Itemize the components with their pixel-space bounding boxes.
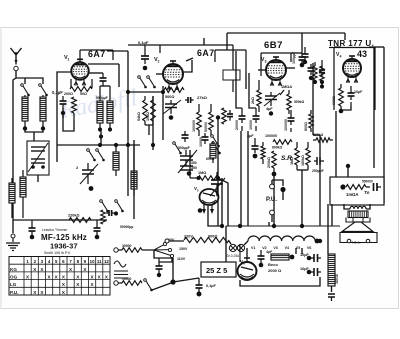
P.U. terminal bottom bbox=[270, 210, 275, 215]
svg-text:P.U.: P.U. bbox=[266, 197, 277, 203]
resistor R17 180k bbox=[306, 142, 310, 170]
junction AVC bus lower bbox=[126, 143, 130, 147]
wire antenna lead-in bbox=[15, 60, 17, 65]
tube V4 43 output bbox=[343, 56, 361, 83]
capacitor C6 0.1uF bbox=[141, 45, 149, 64]
heater labels V1-V6 bbox=[251, 246, 311, 250]
wire V1 top to bus bbox=[88, 63, 119, 65]
junction C7 bbox=[169, 115, 174, 120]
wire right bus x374 drop bbox=[373, 47, 375, 168]
resistor R15 200k bbox=[272, 151, 276, 172]
wire V3 grid bbox=[258, 69, 266, 71]
label box 6B7 bbox=[261, 53, 291, 76]
loudspeaker cone bbox=[340, 222, 377, 243]
wire top bus bbox=[227, 32, 345, 34]
wire lamp leads bbox=[229, 241, 231, 244]
svg-text:350: 350 bbox=[191, 161, 197, 165]
svg-text:Smith 106 lb P.V.: Smith 106 lb P.V. bbox=[44, 251, 71, 255]
wire bus y92 under V2 bbox=[128, 91, 164, 93]
svg-text:0,1µF: 0,1µF bbox=[138, 40, 149, 45]
svg-text:500Ω: 500Ω bbox=[165, 95, 174, 99]
junction R8 left bbox=[197, 176, 201, 180]
capacitor C15 100uuF bbox=[299, 50, 306, 64]
svg-text:l.3.a.: l.3.a. bbox=[352, 240, 361, 245]
tube V2 6A7 IF amplifier bbox=[163, 61, 183, 90]
capacitor C19 250uuF bbox=[314, 157, 324, 165]
svg-text:50Ω: 50Ω bbox=[80, 92, 87, 96]
junction Beco bbox=[290, 255, 295, 260]
resistor R13 800k bbox=[273, 140, 292, 145]
svg-text:0,1µF: 0,1µF bbox=[206, 284, 216, 288]
junction tone feed bbox=[346, 164, 350, 168]
wire x218 vertical bbox=[217, 118, 219, 227]
resistor R25 900ohm line cord bbox=[169, 237, 229, 242]
wire x328 drop bbox=[327, 204, 329, 254]
resistor R19 cathode 43 bbox=[339, 84, 344, 110]
capacitor C11 bbox=[202, 133, 209, 144]
junction C16 bbox=[269, 111, 273, 115]
line-cord terminal bbox=[165, 239, 169, 243]
junction C15 bbox=[300, 63, 305, 68]
junction x153 bus bbox=[151, 143, 155, 147]
junction S3b bbox=[114, 211, 118, 215]
wire transformer left lead bbox=[344, 204, 350, 209]
coil L3 oscillator padding bbox=[9, 178, 15, 218]
capacitor C24 bbox=[94, 220, 101, 235]
wire label arrow bbox=[186, 58, 193, 61]
capacitor C8 coupling bbox=[185, 97, 194, 103]
trimmer capacitor C34 detector bbox=[210, 172, 225, 197]
coil L9 bbox=[210, 141, 216, 163]
wire PU top bbox=[272, 180, 283, 186]
junction C21 bbox=[303, 60, 307, 64]
wire AVC bus bbox=[127, 51, 129, 196]
wire bus x153 bbox=[152, 96, 154, 150]
svg-text:3: 3 bbox=[265, 60, 267, 64]
wire arrow V3 bbox=[280, 90, 284, 95]
trimmer capacitor C4 oscillator bbox=[80, 163, 98, 184]
svg-text:KG: KG bbox=[10, 267, 17, 272]
wire IF1 top bbox=[100, 85, 110, 87]
speaker terminal 1 bbox=[347, 239, 351, 243]
wire top bus left drop bbox=[226, 33, 228, 50]
wire heater to bus bbox=[317, 240, 320, 242]
svg-text:180kΩ: 180kΩ bbox=[301, 155, 305, 166]
DC symbol bbox=[114, 271, 128, 278]
svg-text:2000 Ω: 2000 Ω bbox=[268, 268, 282, 273]
svg-text:150V: 150V bbox=[179, 247, 188, 251]
junction R15 bbox=[272, 172, 277, 177]
switch S5 bbox=[212, 142, 221, 155]
svg-text:16016: 16016 bbox=[335, 274, 339, 284]
svg-text:250µµF: 250µµF bbox=[312, 169, 324, 173]
svg-text:10000: 10000 bbox=[122, 277, 132, 281]
svg-text:600Ω: 600Ω bbox=[332, 96, 336, 105]
svg-text:6A7: 6A7 bbox=[197, 48, 215, 58]
wire net x57 lower bbox=[56, 145, 58, 162]
svg-text:4µF: 4µF bbox=[266, 107, 273, 111]
wire V2 plate bbox=[183, 60, 192, 72]
coil L4 bbox=[20, 170, 26, 218]
switch S7b bbox=[147, 76, 156, 89]
coil L1 aerial bbox=[22, 95, 28, 127]
junction C22 bbox=[320, 80, 324, 84]
junction bus y226 d bbox=[300, 224, 304, 228]
svg-text:P.U.: P.U. bbox=[10, 290, 18, 295]
svg-text:To: To bbox=[364, 190, 370, 195]
svg-text:10kΩ: 10kΩ bbox=[146, 112, 150, 121]
wire coil commons bbox=[25, 129, 43, 133]
capacitor C17 bbox=[308, 64, 315, 75]
switch S1b aerial band bbox=[39, 84, 48, 97]
antenna terminal bbox=[14, 66, 18, 70]
wire x313-x320 link bbox=[313, 134, 320, 136]
resistor R9 2k bbox=[257, 80, 261, 112]
tube V1 6A7 mixer bbox=[71, 59, 88, 85]
junction R11 bbox=[320, 84, 324, 88]
wire PU stub bbox=[271, 180, 273, 184]
junction x163 bus bbox=[161, 90, 165, 94]
tube V5 detector (small) bbox=[200, 189, 219, 214]
wire bus x119 bbox=[118, 64, 120, 87]
output transformer T3 bbox=[346, 206, 370, 222]
wire rectifier loop bottom bbox=[240, 277, 320, 286]
wire to first switch bbox=[24, 78, 26, 84]
wire PU bottom bbox=[271, 215, 273, 222]
svg-text:1MΩ: 1MΩ bbox=[290, 157, 294, 165]
capacitor C10 500uuF bbox=[182, 131, 189, 142]
wire selector feed bbox=[159, 258, 172, 262]
table column numbers bbox=[26, 259, 109, 264]
wire rectifier loop bbox=[239, 245, 241, 262]
trimmer capacitor C7 bbox=[163, 100, 181, 114]
switch S8 pickup bbox=[211, 135, 220, 148]
junction AVC/cathode bus bbox=[126, 90, 130, 94]
svg-text:350: 350 bbox=[191, 166, 197, 170]
capacitor C30 bbox=[328, 294, 335, 301]
wire net x222 detector bbox=[221, 178, 223, 226]
resistor R11 bbox=[320, 60, 324, 85]
capacitor C35 tone bbox=[374, 183, 382, 191]
wire C2 to bus bbox=[63, 113, 74, 131]
coil L7 osc bbox=[113, 145, 119, 176]
antenna bbox=[11, 48, 22, 64]
wire V6 top cap to heater bus bbox=[246, 248, 248, 258]
resistor R22 220k bbox=[69, 218, 91, 223]
wire x332 drop bbox=[331, 204, 333, 226]
svg-text:10: 10 bbox=[90, 259, 95, 264]
svg-text:10000: 10000 bbox=[249, 120, 253, 130]
svg-text:30000: 30000 bbox=[122, 244, 132, 248]
wire V1 grid left bbox=[57, 72, 71, 80]
svg-text:4µF: 4µF bbox=[266, 250, 273, 254]
junction L2 bbox=[41, 126, 45, 130]
junction C2 bbox=[61, 111, 65, 115]
svg-text:10000: 10000 bbox=[199, 137, 203, 147]
junction osc bus a bbox=[98, 143, 102, 147]
trimmer capacitor C16 4uF bbox=[264, 92, 280, 106]
wire mains bus bbox=[154, 250, 173, 258]
IF transformer T2 box bbox=[215, 50, 246, 73]
junction C29 bbox=[307, 270, 312, 275]
wire B+ bus bbox=[133, 140, 135, 219]
junction trimmer bbox=[89, 186, 94, 191]
junction heater end bbox=[315, 239, 320, 244]
junction R20 bbox=[313, 80, 317, 84]
wire net x248 bbox=[247, 131, 249, 226]
resistor R7 bbox=[222, 108, 226, 124]
speaker terminal 2 bbox=[366, 239, 370, 243]
resistor R3 25k bbox=[101, 210, 105, 224]
svg-text:500kΩ: 500kΩ bbox=[294, 100, 305, 104]
variable capacitor C1 tuning gang bbox=[27, 141, 49, 175]
wire transformer right lead bbox=[366, 204, 370, 209]
svg-text:11: 11 bbox=[97, 259, 102, 264]
capacitor C23 bbox=[29, 220, 36, 235]
junction small bbox=[217, 177, 219, 179]
junction mains bbox=[170, 279, 175, 284]
svg-text:50000: 50000 bbox=[204, 122, 208, 132]
junction bus y226 a bbox=[220, 224, 224, 228]
resistor R5 100k bbox=[197, 104, 202, 136]
wire AVC bottom bus bbox=[13, 219, 107, 221]
wire net x241 bbox=[240, 131, 242, 226]
svg-text:OG: OG bbox=[10, 275, 18, 280]
svg-text:200kΩ: 200kΩ bbox=[267, 157, 271, 168]
svg-text:54kΩ: 54kΩ bbox=[137, 112, 141, 121]
svg-text:2kΩ: 2kΩ bbox=[251, 97, 255, 104]
svg-text:500µµF: 500µµF bbox=[96, 96, 108, 100]
ground bbox=[6, 238, 20, 251]
ballast resistor block bbox=[328, 254, 335, 286]
wire 101 down bbox=[100, 131, 102, 145]
svg-text:LG: LG bbox=[10, 282, 17, 287]
capacitor C14 10000 bbox=[253, 108, 260, 131]
svg-text:6A7: 6A7 bbox=[88, 49, 106, 59]
resistor R23 30000 line bbox=[118, 248, 154, 253]
wire to tuning gang bbox=[33, 132, 35, 141]
resistor R1 cathode V1 bbox=[72, 97, 77, 120]
switch S3b bbox=[115, 200, 124, 213]
svg-text:4: 4 bbox=[340, 55, 342, 59]
filter capacitor C29 16uF bbox=[311, 268, 321, 276]
wire x172 to selector bbox=[172, 258, 174, 282]
svg-text:20000: 20000 bbox=[235, 120, 239, 130]
switch S3a bbox=[100, 200, 109, 213]
junction bus bbox=[99, 134, 103, 138]
switch S6 mains bbox=[144, 279, 153, 292]
switch S4 bbox=[173, 142, 182, 155]
capacitor C25 line filter bbox=[156, 258, 163, 273]
wire top right link bbox=[375, 46, 384, 48]
svg-text:800Ω: 800Ω bbox=[304, 122, 308, 131]
resistor R8 1Mohm bbox=[190, 176, 218, 181]
wire mains to junction bbox=[152, 283, 171, 290]
junction heater bus bbox=[318, 239, 322, 243]
wire x226 drop bbox=[225, 226, 227, 254]
output stage box bbox=[334, 47, 375, 110]
resistor R4 500ohm cathode V2 bbox=[164, 88, 184, 93]
svg-text:600Ω: 600Ω bbox=[206, 157, 215, 161]
pilot lamp La2 bbox=[237, 244, 244, 251]
wire C2 down bbox=[62, 108, 64, 118]
resistor R16 1M bbox=[295, 142, 299, 170]
coil L2 aerial bbox=[40, 95, 46, 127]
wire R27/R28 join bbox=[145, 125, 153, 135]
mains terminal 1 bbox=[114, 248, 118, 252]
switch S2b bbox=[96, 149, 105, 162]
wire C15 link bbox=[291, 52, 302, 54]
resistor R14 100k bbox=[261, 142, 265, 164]
wire net x190 bbox=[189, 150, 191, 178]
coil L8 osc bbox=[131, 145, 137, 196]
junction C12 bbox=[187, 171, 192, 176]
junction C25 bbox=[157, 273, 161, 277]
resistor R6 50k bbox=[209, 104, 214, 136]
table row labels bbox=[10, 267, 18, 295]
table X marks bbox=[26, 267, 109, 295]
capacitor C22 bbox=[319, 66, 325, 77]
svg-text:900Ω: 900Ω bbox=[208, 235, 217, 239]
svg-text:1936-37: 1936-37 bbox=[50, 242, 78, 251]
wire x302 beco bbox=[301, 248, 303, 254]
svg-text:100000: 100000 bbox=[284, 119, 288, 131]
wire osc bus bbox=[56, 80, 58, 145]
resistor R10 500k bbox=[287, 90, 291, 114]
wire gang to ground bus bbox=[37, 175, 39, 182]
junction osc bus b bbox=[114, 143, 118, 147]
svg-text:25 Z 5: 25 Z 5 bbox=[206, 266, 227, 275]
svg-text:800kΩ: 800kΩ bbox=[272, 146, 283, 150]
capacitor C9 bbox=[227, 110, 233, 121]
junction R8 right bbox=[216, 176, 220, 180]
capacitor C13 20000 bbox=[239, 108, 246, 131]
resistor R2 under V1 bbox=[70, 79, 92, 91]
wire 43 plate drop bbox=[335, 111, 337, 177]
svg-text:6B7: 6B7 bbox=[264, 40, 283, 51]
svg-text:10µF: 10µF bbox=[354, 90, 363, 94]
junction R19/C20 bbox=[339, 109, 344, 114]
ground terminal bbox=[11, 234, 15, 238]
label box 6A7 second bbox=[160, 45, 233, 92]
wire antenna to band switches bbox=[16, 71, 43, 85]
wire C15 top feed bbox=[301, 33, 303, 50]
svg-text:220kΩ: 220kΩ bbox=[68, 214, 80, 218]
svg-text:V4: V4 bbox=[285, 246, 289, 250]
wire to C26 bbox=[173, 278, 199, 282]
svg-text:50000µµ: 50000µµ bbox=[120, 225, 133, 229]
coil L6 IF secondary bbox=[107, 86, 113, 128]
svg-text:1mΩA: 1mΩA bbox=[346, 192, 358, 197]
wire x236 drop bbox=[236, 51, 242, 108]
AC sine symbol bbox=[114, 261, 126, 267]
wire bottom bus bbox=[226, 225, 340, 227]
junction C33 bbox=[253, 154, 258, 159]
wire lamp to heater chain bbox=[244, 241, 248, 245]
wire V3 plate bbox=[286, 67, 295, 69]
resistor R28 10k bbox=[151, 96, 156, 125]
wire antenna down-lead bbox=[13, 78, 16, 218]
svg-text:V3: V3 bbox=[273, 246, 277, 250]
wire V1 box top link bbox=[107, 50, 128, 52]
wire left ground bus bbox=[12, 218, 14, 233]
wire tone feed bbox=[347, 166, 349, 177]
rectifier box 25Z5 bbox=[201, 262, 236, 277]
capacitor C5 50000uuF bbox=[106, 210, 115, 216]
svg-text:1MΩA: 1MΩA bbox=[281, 85, 292, 89]
junction C27 bbox=[259, 263, 264, 268]
switch S7a bbox=[138, 76, 147, 89]
capacitor C2 0.1uF grid bbox=[60, 96, 67, 109]
heater chain coil bbox=[248, 236, 315, 241]
svg-text:27kΩ: 27kΩ bbox=[197, 95, 208, 100]
wire V2 grid bbox=[156, 73, 163, 75]
capacitor C21 grid 43 bbox=[302, 47, 309, 61]
svg-text:16µF: 16µF bbox=[300, 267, 309, 271]
capacitor C20 10uF bypass bbox=[348, 86, 355, 106]
junction bus y226 c bbox=[272, 224, 276, 228]
capacitor C33 4uF bbox=[252, 138, 259, 153]
wire TNR box top bbox=[329, 47, 375, 49]
svg-text:500µµF: 500µµF bbox=[178, 146, 190, 150]
svg-text:V1: V1 bbox=[251, 246, 255, 250]
resistor R24 10000 line bbox=[118, 281, 142, 286]
wire C6 bus bbox=[128, 44, 160, 46]
wire bus y145 bbox=[57, 144, 140, 146]
svg-text:1MΩ: 1MΩ bbox=[198, 171, 206, 175]
capacitor C18 100000 bbox=[288, 110, 295, 132]
junction C26 bbox=[197, 292, 202, 297]
wire net x283 pu bbox=[282, 192, 284, 200]
wire net x246 down bbox=[245, 73, 247, 89]
svg-text:100000: 100000 bbox=[192, 120, 196, 132]
coil L5 IF primary bbox=[97, 86, 103, 128]
resistor R20 bbox=[313, 62, 317, 80]
wire x249 drop bbox=[249, 73, 256, 108]
capacitor C3 V1 plate bbox=[100, 73, 107, 86]
junction C24 bbox=[95, 235, 100, 240]
wire net bus y226 left bbox=[208, 215, 222, 226]
resistor R26 Beco 2000ohm bbox=[271, 254, 289, 260]
tube V3 6B7 detector/AF bbox=[266, 57, 286, 86]
svg-text:Beco: Beco bbox=[268, 262, 278, 267]
wire SR net to bus bbox=[301, 170, 303, 226]
wire x296 heater drop bbox=[295, 248, 297, 254]
tone network box 1M bbox=[330, 177, 384, 205]
junction bus y226 b bbox=[238, 224, 242, 228]
wire V1 plate right bbox=[89, 72, 103, 74]
wire R15 to bus bbox=[273, 176, 275, 226]
svg-text:220V: 220V bbox=[184, 235, 193, 239]
waveband switch table bbox=[9, 257, 110, 296]
switch S2a bbox=[87, 149, 96, 162]
capacitor C26 0.1uF line bbox=[196, 278, 203, 292]
svg-text:2: 2 bbox=[158, 60, 160, 64]
junction C6 bbox=[143, 66, 148, 71]
svg-text:200Ω: 200Ω bbox=[64, 92, 73, 96]
filter capacitor C28 16uF bbox=[311, 254, 321, 262]
junction L5 bbox=[98, 127, 102, 131]
resistor R12 800ohm bbox=[309, 110, 313, 132]
junction V5 cathode bbox=[198, 208, 203, 213]
junction P.U. bbox=[280, 187, 285, 192]
junction C23 bbox=[30, 235, 35, 240]
junction coils L1/L2 bbox=[23, 126, 27, 130]
label box 6A7 first tube bbox=[80, 50, 113, 60]
P.U. terminal top bbox=[270, 184, 275, 189]
voltage selector bbox=[154, 242, 174, 257]
svg-text:100000: 100000 bbox=[265, 134, 277, 138]
